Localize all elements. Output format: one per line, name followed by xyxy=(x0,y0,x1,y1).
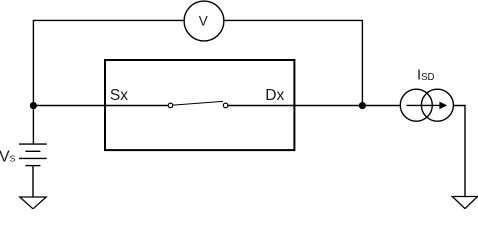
wire top-left (from left rail to voltmeter) xyxy=(33,20,184,144)
switch S1 blade xyxy=(173,101,223,105)
current source ISD circle 2 xyxy=(421,89,453,121)
wire main horizontal left (node S to switch pole) xyxy=(33,105,168,107)
wire current source to right ground xyxy=(454,106,466,197)
switch S1 pole contact xyxy=(168,103,173,108)
switch box (DUT outline) xyxy=(105,60,294,150)
ground (right) xyxy=(452,197,477,209)
switch S1 throw contact xyxy=(223,103,228,108)
current source arrow xyxy=(407,104,441,106)
node S junction dot xyxy=(30,102,37,109)
ground (left) xyxy=(20,197,46,209)
current source ISD circle 1 xyxy=(400,89,432,121)
svg-text:Sx: Sx xyxy=(110,87,128,104)
wire top-right (voltmeter to right rail) xyxy=(224,20,363,105)
wire battery to ground xyxy=(32,166,34,197)
battery VS plates xyxy=(19,144,47,166)
svg-text:Dx: Dx xyxy=(265,87,284,104)
node D junction dot xyxy=(359,102,366,109)
voltmeter U1 circle xyxy=(184,1,224,41)
svg-text:V: V xyxy=(199,14,208,29)
wire main horizontal right (switch throw to current source) xyxy=(228,105,401,107)
